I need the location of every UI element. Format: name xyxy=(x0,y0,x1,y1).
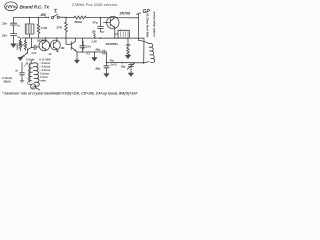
node Q3 collector xyxy=(45,37,46,38)
wire box1 top xyxy=(29,18,31,25)
svg-text:A. R 100t: A. R 100t xyxy=(38,58,51,62)
capacitor 47p xyxy=(98,18,105,32)
tuning arrow coil xyxy=(24,63,28,67)
transistor Q4 circled xyxy=(49,38,60,52)
transistor Q1 xyxy=(104,16,120,38)
wire rail2 xyxy=(22,37,145,39)
wire collector T1 xyxy=(31,38,33,47)
svg-text:27K: 27K xyxy=(56,26,63,30)
svg-text:1μ: 1μ xyxy=(17,37,20,39)
ground 15K xyxy=(125,55,130,58)
node crystal top xyxy=(120,30,121,31)
antenna lead xyxy=(138,14,140,41)
svg-text:47p: 47p xyxy=(92,21,98,25)
svg-text:aerial whip adjust: aerial whip adjust xyxy=(153,12,157,38)
node rail x38 xyxy=(38,17,40,19)
svg-text:-9V: -9V xyxy=(40,12,47,17)
wire Q5 base xyxy=(66,38,71,44)
svg-text:2.2n: 2.2n xyxy=(31,52,37,55)
svg-text:22n: 22n xyxy=(1,22,7,26)
svg-text:1n: 1n xyxy=(17,26,20,28)
svg-text:2N708: 2N708 xyxy=(119,12,131,16)
node T1 collector xyxy=(31,47,32,48)
ground second xyxy=(92,58,97,62)
wire rail2 right corner xyxy=(143,38,145,63)
svg-text:22n: 22n xyxy=(1,34,7,38)
ground left caps xyxy=(11,44,16,48)
resistor Ra vertical xyxy=(19,38,21,51)
node rail x66 xyxy=(65,17,67,19)
svg-text:2×2.2: 2×2.2 xyxy=(110,64,118,67)
ground T1 emitter xyxy=(18,57,23,60)
svg-text:3k↓: 3k↓ xyxy=(49,53,53,56)
transistor Q5 xyxy=(71,38,77,60)
node rail2 x66 xyxy=(65,37,67,39)
svg-text:68p: 68p xyxy=(96,67,101,71)
svg-text:15K: 15K xyxy=(126,43,132,47)
svg-text:wire: wire xyxy=(41,79,47,83)
svg-text:~ 3 turns: ~ 3 turns xyxy=(39,68,51,72)
svg-text:~ 3 turns: ~ 3 turns xyxy=(39,65,51,69)
svg-text:50kHz: 50kHz xyxy=(4,81,12,84)
node rail2 x94 xyxy=(94,37,95,38)
svg-text:3.3K: 3.3K xyxy=(41,26,48,30)
coil L2 antenna loading xyxy=(139,41,155,63)
resistor R rail 560 xyxy=(74,16,86,19)
capacitor 22n lower-left xyxy=(11,34,17,44)
resistor 15K xyxy=(127,38,130,55)
node rail2 x100 xyxy=(100,37,102,39)
svg-text:3 turns: 3 turns xyxy=(40,72,49,76)
ground tank cap xyxy=(104,74,109,77)
node 10n bottom xyxy=(82,51,83,52)
wire top rail left xyxy=(14,17,49,19)
node antenna junction xyxy=(143,62,145,64)
trimmer capacitor 15p xyxy=(127,63,134,73)
resistor 12K small xyxy=(92,32,97,38)
node tank x122 xyxy=(121,62,123,64)
svg-text:18k: 18k xyxy=(61,47,66,50)
switch key label xyxy=(54,9,57,12)
transistor Q3 circled xyxy=(39,38,50,51)
node rail x100 xyxy=(100,17,102,19)
svg-text:47p: 47p xyxy=(109,60,115,63)
svg-text:1 turn: 1 turn xyxy=(40,75,48,79)
capacitor 10n xyxy=(80,38,85,52)
wire coil top xyxy=(30,60,32,63)
wire emitter row y52 xyxy=(77,51,103,53)
coil L1 base loop xyxy=(31,84,40,90)
resistor 3.3K vertical xyxy=(37,18,40,39)
capacitor coupling C2 xyxy=(32,45,40,49)
svg-text:27MHz Pos GND version: 27MHz Pos GND version xyxy=(71,3,117,7)
coil L1 xyxy=(28,63,40,87)
svg-text:1n: 1n xyxy=(15,70,18,73)
svg-text:2N3053: 2N3053 xyxy=(81,39,85,50)
svg-text:Brand R.C. Tx: Brand R.C. Tx xyxy=(20,4,50,10)
node y52 xyxy=(94,51,95,52)
capacitor near coil xyxy=(20,63,25,83)
svg-text:10n: 10n xyxy=(86,45,91,49)
node rail x29 xyxy=(29,17,31,19)
coil winding notes xyxy=(38,58,51,83)
svg-text:0.1: 0.1 xyxy=(87,53,91,56)
capacitor tank to ground xyxy=(104,63,109,74)
ground trimmer xyxy=(128,73,133,76)
wire top rail mid xyxy=(59,16,74,18)
wire top rail right xyxy=(86,17,139,19)
transistor T1 xyxy=(21,47,32,57)
resistor Rb vertical xyxy=(24,38,26,51)
node Q4 collector xyxy=(56,37,57,38)
antenna top tick xyxy=(136,13,140,14)
svg-text:* handover rate of crystal ban: * handover rate of crystal bandwidth FX(… xyxy=(2,92,138,96)
svg-text:15p: 15p xyxy=(121,65,126,69)
resistor 27K vertical xyxy=(65,18,68,39)
switch S1 xyxy=(52,14,60,18)
node battery junction xyxy=(48,17,50,19)
svg-text:~ 3 turns: ~ 3 turns xyxy=(39,61,51,65)
wire tank row xyxy=(107,62,144,64)
capacitor 22n upper-left xyxy=(11,18,17,34)
node rail2 x115 xyxy=(114,37,116,39)
capacitor 68p series xyxy=(103,50,107,63)
crystal box2 xyxy=(115,30,130,38)
svg-text:560Ω: 560Ω xyxy=(75,20,83,24)
node rail2 x27 xyxy=(26,37,28,39)
wire box1 bottom xyxy=(29,34,31,38)
svg-text:2N4058a: 2N4058a xyxy=(105,42,119,46)
ground Q5 emitter xyxy=(75,60,80,63)
svg-text:3+3=6v: 3+3=6v xyxy=(26,58,35,61)
logo xyxy=(5,2,18,11)
resonator box1 xyxy=(25,24,34,34)
node tank left xyxy=(106,62,108,64)
svg-text:68p: 68p xyxy=(96,48,101,52)
svg-text:(0.75m) Rod 48in: (0.75m) Rod 48in xyxy=(146,14,150,38)
svg-text:2.2K: 2.2K xyxy=(91,41,97,44)
